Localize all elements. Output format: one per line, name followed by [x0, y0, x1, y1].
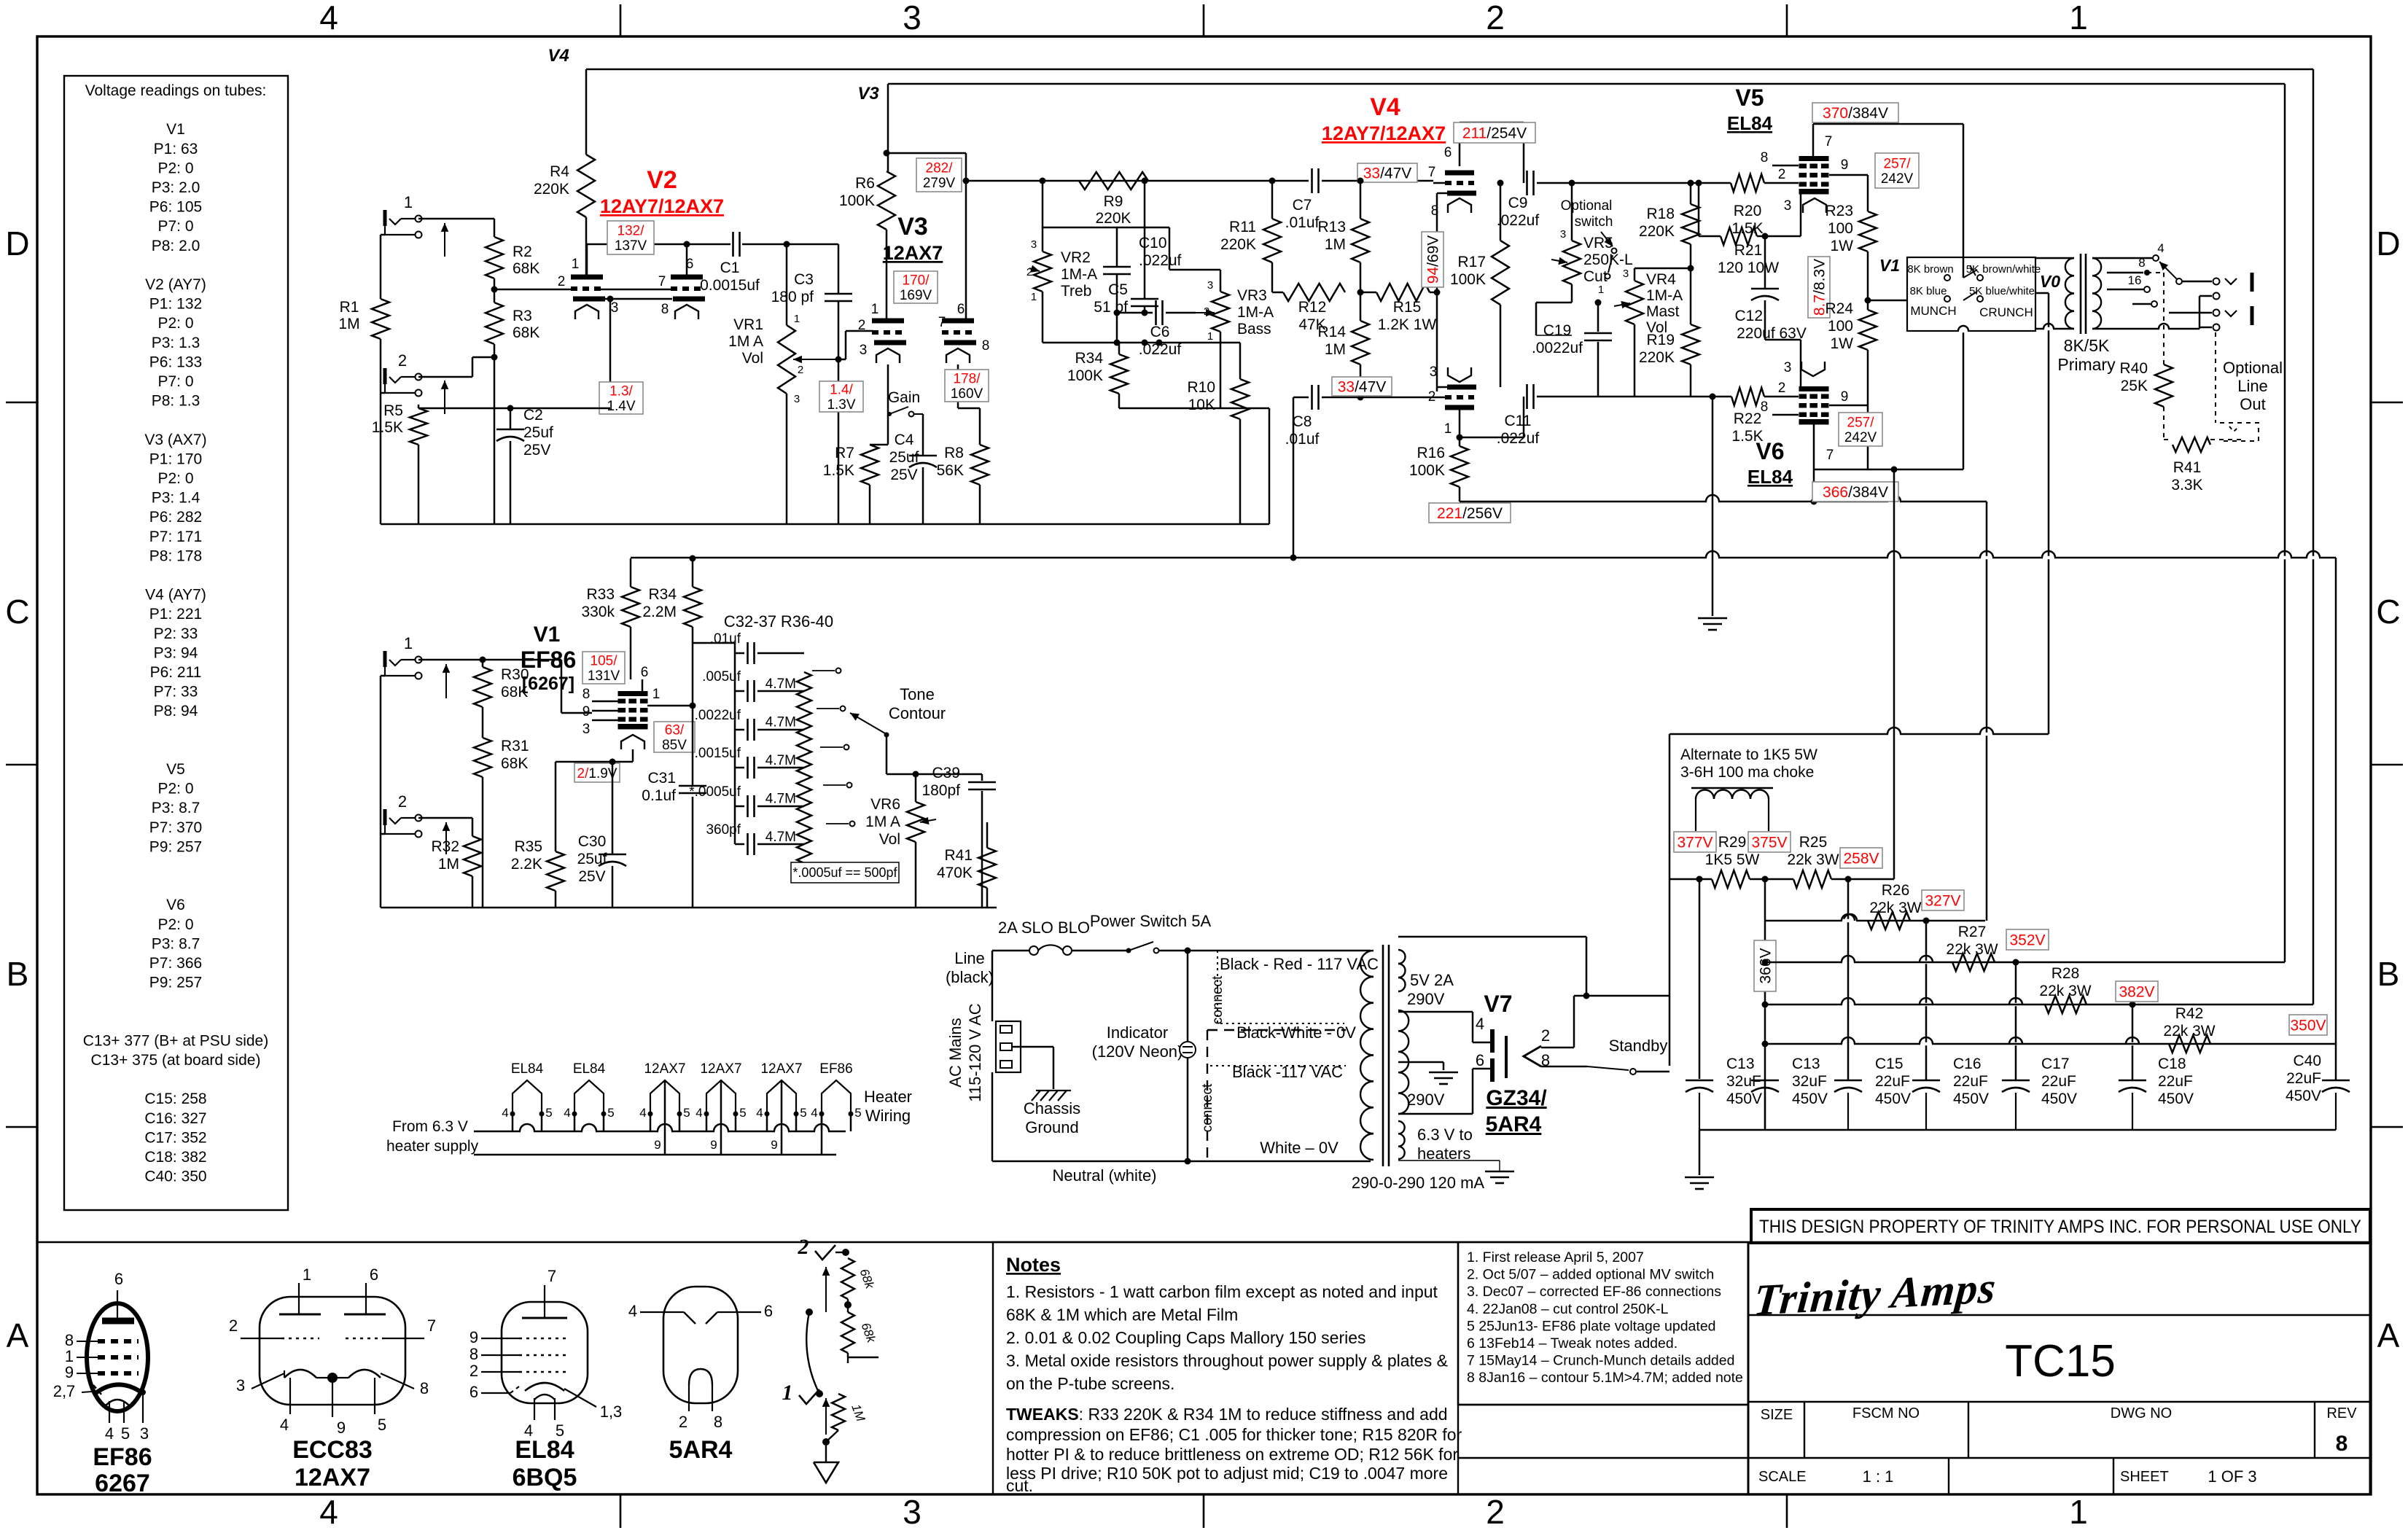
resistor R26: [1868, 912, 1910, 929]
wire B rail preamp: [631, 557, 2336, 559]
wire V4 lower grid: [1433, 397, 1445, 399]
svg-text:Voltage readings on tubes:: Voltage readings on tubes:: [85, 82, 267, 99]
svg-text:R40: R40: [2119, 360, 2148, 377]
svg-text:R10: R10: [1187, 379, 1215, 396]
svg-text:100: 100: [1828, 220, 1853, 237]
wire jack sleeves to ground bus: [380, 235, 382, 299]
svg-text:1.4/: 1.4/: [830, 383, 853, 398]
svg-text:*.0005uf: *.0005uf: [689, 784, 741, 800]
voltage box 375V: [1748, 832, 1791, 852]
wire V4 lower cathode: [1437, 386, 1447, 389]
tube V2 triode B: [671, 275, 703, 280]
munch switch contacts row2: [1944, 296, 1950, 302]
svg-text:R15: R15: [1393, 299, 1422, 316]
resistor R17: [1500, 183, 1502, 241]
svg-text:68K: 68K: [513, 324, 539, 341]
svg-text:22uF: 22uF: [1875, 1073, 1910, 1090]
svg-text:connect: connect: [1210, 975, 1226, 1024]
svg-text:P6: 282: P6: 282: [149, 509, 202, 526]
svg-text:P3: 94: P3: 94: [154, 644, 198, 661]
svg-text:1W: 1W: [1831, 238, 1854, 254]
resistor R11: [1271, 181, 1274, 219]
tube V2 triode A: [571, 275, 603, 280]
svg-text:105/: 105/: [591, 654, 618, 669]
svg-text:25V: 25V: [523, 442, 550, 459]
svg-text:1: 1: [1598, 284, 1604, 296]
svg-text:2.2M: 2.2M: [642, 604, 677, 620]
svg-text:5: 5: [607, 1106, 614, 1120]
capacitor C16: [1912, 1080, 1940, 1082]
svg-text:SCALE: SCALE: [1758, 1469, 1807, 1485]
svg-text:MUNCH: MUNCH: [1910, 304, 1956, 318]
voltage box 350V: [2289, 1015, 2327, 1035]
voltage box 257/242V lower: [1839, 413, 1882, 446]
voltage box 132/137V: [607, 221, 654, 254]
svg-text:282/: 282/: [926, 161, 954, 176]
svg-text:180pf: 180pf: [921, 782, 960, 799]
voltage box 8.7/8.3V rotated: [1808, 257, 1830, 318]
V1 cathode hat: [621, 735, 644, 749]
svg-text:R31: R31: [501, 738, 529, 754]
V5 cathode hat: [1803, 198, 1826, 213]
svg-text:V2: V2: [647, 166, 677, 194]
voltage box 370/384V: [1812, 103, 1898, 122]
capacitor C31: [692, 706, 694, 786]
voltage box 327V: [1922, 890, 1964, 910]
svg-text:1 : 1: 1 : 1: [1863, 1467, 1894, 1486]
resistor R12: [1283, 284, 1345, 301]
svg-text:2: 2: [798, 1235, 809, 1259]
wire R6 to V3 plate A: [886, 230, 888, 321]
dotted wire black-red: [1217, 950, 1346, 951]
svg-text:3: 3: [794, 393, 800, 405]
svg-text:22uF: 22uF: [1953, 1073, 1988, 1090]
capacitor C36: [735, 805, 744, 808]
svg-text:Optional: Optional: [2223, 359, 2283, 377]
svg-text:GZ34/: GZ34/: [1486, 1086, 1547, 1110]
svg-text:4: 4: [280, 1416, 289, 1434]
svg-text:5: 5: [378, 1416, 386, 1434]
svg-text:22uF: 22uF: [2041, 1073, 2076, 1090]
svg-text:180 pf: 180 pf: [771, 289, 814, 305]
svg-text:R22: R22: [1734, 410, 1762, 427]
output transformer secondary: [2092, 258, 2101, 276]
svg-text:Black - Red - 117 VAC: Black - Red - 117 VAC: [1220, 955, 1379, 973]
svg-text:C17: C17: [2041, 1056, 2070, 1072]
wire R27 rail: [1765, 961, 2285, 964]
V3 cathode hat A: [876, 348, 900, 363]
svg-text:.022uf: .022uf: [1497, 212, 1540, 229]
svg-text:4. 22Jan08 – cut control 250K-: 4. 22Jan08 – cut control 250K-L: [1467, 1301, 1669, 1317]
pinout EF86 envelope: [87, 1303, 148, 1411]
heater symbol 12AX7 at x=912: [650, 1080, 679, 1114]
svg-text:8: 8: [714, 1413, 722, 1431]
resistor R13: [1360, 181, 1362, 219]
wire jack2 tip: [418, 376, 472, 378]
svg-text:1: 1: [404, 634, 413, 652]
capacitor C7: [1311, 168, 1313, 193]
svg-text:290V: 290V: [1407, 990, 1445, 1008]
svg-text:352V: 352V: [2009, 932, 2045, 949]
voltage box 63/85V: [654, 722, 695, 752]
svg-text:P2: 33: P2: 33: [154, 625, 198, 642]
svg-text:C13: C13: [1726, 1056, 1755, 1072]
svg-text:C2: C2: [523, 407, 543, 424]
svg-text:12AY7/12AX7: 12AY7/12AX7: [600, 195, 724, 217]
svg-text:Gain: Gain: [888, 389, 920, 406]
svg-text:C15: 258: C15: 258: [144, 1091, 206, 1107]
svg-text:P3: 8.7: P3: 8.7: [152, 800, 200, 816]
svg-text:1: 1: [404, 193, 413, 211]
wire V2 cathode down: [609, 299, 612, 408]
svg-text:switch: switch: [1575, 214, 1613, 230]
wire jack2 tip V1: [418, 817, 472, 819]
wire PSU top rail: [1669, 733, 2049, 736]
svg-text:From 6.3 V: From 6.3 V: [392, 1118, 468, 1135]
svg-text:5K brown/white: 5K brown/white: [1966, 263, 2041, 276]
svg-text:115-120 V AC: 115-120 V AC: [966, 1003, 984, 1101]
svg-text:68K & 1M which are Metal Film: 68K & 1M which are Metal Film: [1006, 1306, 1238, 1325]
svg-text:R4: R4: [550, 163, 569, 180]
wire line down to plug: [991, 951, 994, 1021]
resistor R310: [797, 825, 811, 863]
svg-text:32uF: 32uF: [1792, 1073, 1827, 1090]
svg-text:22k 3W: 22k 3W: [2039, 983, 2091, 999]
svg-text:6: 6: [1444, 145, 1452, 160]
svg-text:1: 1: [1444, 421, 1452, 437]
svg-text:366V: 366V: [1758, 948, 1774, 983]
svg-text:3: 3: [1207, 279, 1213, 292]
svg-text:1M: 1M: [1325, 341, 1346, 358]
svg-text:221/256V: 221/256V: [1437, 505, 1503, 522]
PT 6.3V secondary: [1398, 1121, 1405, 1134]
svg-text:SIZE: SIZE: [1761, 1407, 1793, 1423]
output transformer core: [2080, 254, 2082, 334]
pinout EL84 envelope: [502, 1302, 588, 1403]
svg-text:32uF: 32uF: [1726, 1073, 1761, 1090]
svg-text:25uf: 25uf: [523, 424, 553, 441]
voltage box 1.4/1.3V: [819, 381, 863, 412]
svg-text:0.1uf: 0.1uf: [642, 787, 676, 804]
wire R26 rail: [1765, 920, 1985, 922]
R40 dashed bottom: [2163, 407, 2165, 440]
svg-text:3: 3: [611, 300, 619, 316]
svg-text:C4: C4: [895, 432, 914, 448]
svg-text:R34: R34: [648, 586, 677, 603]
pinout ECC83 center dot: [327, 1373, 338, 1383]
svg-text:1.3V: 1.3V: [827, 397, 855, 413]
input jack 2 (V2 channel): [383, 368, 387, 384]
speaker jack 2 sleeve: [2213, 324, 2220, 331]
svg-text:8: 8: [661, 302, 669, 317]
mains plug: [996, 1021, 1021, 1072]
wire R28 rail: [1765, 1004, 2313, 1006]
svg-text:7: 7: [938, 315, 946, 330]
svg-text:R42: R42: [2175, 1005, 2204, 1022]
svg-text:6267: 6267: [95, 1470, 150, 1497]
voltage box 258V: [1840, 848, 1882, 868]
dotted wire black117: [1210, 1065, 1346, 1066]
wire VR1 wiper to V3 grid: [838, 359, 846, 361]
svg-text:R16: R16: [1417, 445, 1445, 461]
svg-text:C6: C6: [1150, 324, 1170, 340]
svg-text:330k: 330k: [581, 604, 615, 620]
svg-text:(black): (black): [946, 968, 994, 986]
voltage box 211/254V: [1454, 122, 1535, 143]
svg-text:12AX7: 12AX7: [883, 242, 943, 264]
svg-text:R33: R33: [586, 586, 615, 603]
svg-text:C40: C40: [2293, 1053, 2321, 1069]
svg-text:257/: 257/: [1884, 157, 1912, 172]
svg-text:4.7M: 4.7M: [765, 792, 796, 807]
wire V3 B+ top: [887, 84, 889, 171]
svg-text:Optional: Optional: [1561, 198, 1613, 214]
svg-text:C40: 350: C40: 350: [144, 1169, 206, 1185]
svg-text:9: 9: [337, 1419, 346, 1437]
resistor R9: [1079, 172, 1148, 190]
svg-text:2: 2: [469, 1362, 478, 1380]
svg-text:1.5K: 1.5K: [1731, 220, 1763, 237]
capacitor C35: [735, 767, 744, 769]
svg-text:C32-37: C32-37: [724, 612, 776, 631]
svg-text:3.3K: 3.3K: [2171, 477, 2202, 494]
svg-text:V4: V4: [1370, 93, 1400, 121]
voltage box 33/47V upper: [1357, 163, 1417, 182]
svg-text:1 OF 3: 1 OF 3: [2208, 1467, 2256, 1486]
svg-text:2A SLO BLO: 2A SLO BLO: [998, 918, 1090, 937]
pinout ECC83 cathodes: [284, 1370, 316, 1378]
svg-text:P3: 2.0: P3: 2.0: [152, 179, 200, 196]
potentiometer VR2 treble: [1034, 251, 1051, 292]
resistor R15: [1376, 284, 1430, 301]
voltage box 352V: [2006, 929, 2049, 950]
wire V1 grid: [561, 660, 563, 713]
pinout ECC83 plates: [279, 1314, 321, 1316]
svg-text:R24: R24: [1825, 300, 1853, 317]
wire 290V top to V7 plate 4: [1398, 1011, 1473, 1013]
voltage box 33/47V lower: [1332, 377, 1392, 396]
svg-text:7: 7: [427, 1316, 436, 1335]
capacitor C6: [1117, 312, 1153, 314]
svg-text:EL84: EL84: [573, 1061, 606, 1077]
munch-crunch switch box: [1907, 257, 2035, 331]
svg-text:132/: 132/: [617, 224, 645, 239]
svg-text:5AR4: 5AR4: [1486, 1112, 1542, 1136]
svg-text:P7: 370: P7: 370: [149, 819, 202, 836]
wire plug ground prong: [1012, 1046, 1053, 1048]
svg-text:Vol: Vol: [742, 350, 763, 367]
svg-text:5: 5: [545, 1106, 552, 1120]
choke symbol: [1691, 787, 1773, 789]
svg-text:P3: 8.7: P3: 8.7: [152, 935, 200, 952]
svg-text:R23: R23: [1825, 203, 1853, 219]
svg-text:C1: C1: [720, 260, 740, 276]
heater EF86 lower leg: [821, 1114, 823, 1155]
svg-text:22uF: 22uF: [2286, 1070, 2321, 1087]
VR3 wiper arrow from C6: [1196, 312, 1215, 313]
wire VR2 bottom rail: [1042, 292, 1044, 343]
svg-text:.022uf: .022uf: [1139, 252, 1182, 269]
svg-text:R3: R3: [513, 308, 532, 324]
svg-text:EL84: EL84: [1747, 466, 1793, 488]
svg-text:3: 3: [582, 722, 591, 737]
svg-text:.005uf: .005uf: [702, 669, 741, 684]
svg-text:450V: 450V: [2286, 1088, 2321, 1104]
svg-text:3: 3: [1784, 360, 1792, 375]
svg-text:3-6H 100 ma choke: 3-6H 100 ma choke: [1680, 764, 1814, 781]
wire ground bus preamp: [381, 523, 1269, 526]
svg-text:2: 2: [398, 351, 407, 370]
pinout ECC83 bottom pins: [289, 1378, 291, 1414]
resistor R10: [1239, 343, 1242, 379]
capacitor C39: [981, 774, 983, 781]
svg-text:EF86: EF86: [93, 1443, 152, 1471]
svg-text:2: 2: [858, 318, 866, 333]
svg-text:1: 1: [782, 1381, 793, 1405]
dotted connect box upper: [1217, 951, 1344, 1023]
svg-text:220K: 220K: [1639, 349, 1675, 366]
svg-text:V7: V7: [1484, 991, 1512, 1017]
svg-text:2/1.9V: 2/1.9V: [577, 766, 617, 781]
wire plateB node to R9 rail: [966, 180, 1309, 182]
resistor R14: [1352, 321, 1369, 364]
svg-text:7: 7: [1825, 134, 1833, 149]
capacitor C1: [732, 232, 734, 257]
svg-text:12AX7: 12AX7: [644, 1061, 685, 1077]
svg-text:.0015uf: .0015uf: [695, 746, 741, 761]
svg-text:7: 7: [658, 274, 666, 289]
svg-text:hotter PI & to reduce brittlen: hotter PI & to reduce brittleness on ext…: [1006, 1445, 1458, 1464]
svg-text:(120V Neon): (120V Neon): [1092, 1042, 1183, 1061]
heater bus lower: [474, 1154, 836, 1156]
svg-text:9: 9: [582, 704, 591, 719]
svg-text:C5: C5: [1108, 281, 1128, 298]
wire V3 plate B riser: [887, 152, 966, 155]
capacitor C9: [1526, 171, 1528, 195]
svg-text:4: 4: [628, 1302, 637, 1320]
svg-text:V6: V6: [1756, 438, 1784, 464]
svg-text:P9: 257: P9: 257: [149, 975, 202, 991]
wire selector to jack tip: [2182, 281, 2212, 283]
main schematic ground: [1698, 617, 1727, 620]
optional switch symbol: [1601, 232, 1613, 246]
svg-text:1.5K: 1.5K: [372, 419, 403, 436]
svg-text:R12: R12: [1298, 299, 1327, 316]
svg-text:R32: R32: [431, 838, 459, 855]
svg-text:Line: Line: [954, 949, 985, 967]
svg-text:370/384V: 370/384V: [1823, 105, 1888, 122]
speaker jack 1: [2213, 278, 2220, 285]
wire V5 plate to munch switch: [1813, 123, 1963, 125]
svg-text:4: 4: [1476, 1015, 1484, 1033]
svg-text:R25: R25: [1799, 834, 1828, 851]
capacitor C13a: [1699, 879, 1701, 1079]
svg-text:22k 3W: 22k 3W: [1869, 900, 1921, 916]
svg-text:V4 (AY7): V4 (AY7): [145, 587, 206, 604]
svg-text:2: 2: [229, 1316, 238, 1335]
wire bus to ground: [1699, 1130, 1701, 1175]
V6 cathode wire: [1800, 340, 1802, 386]
voltage box 2/1.9V: [574, 763, 620, 782]
input jack 2 (V1): [383, 809, 387, 825]
svg-text:85V: 85V: [662, 738, 687, 753]
svg-text:1M A: 1M A: [865, 814, 900, 830]
wire B+ top rail V4: [586, 69, 2313, 71]
V4 upper cathode hat: [1448, 198, 1471, 213]
wire V6 plate loop down: [1986, 502, 1988, 921]
svg-text:2: 2: [398, 792, 407, 811]
svg-text:1: 1: [2069, 1493, 2088, 1531]
svg-text:470K: 470K: [937, 865, 973, 881]
revision box frame: [1458, 1242, 1748, 1405]
svg-text:Notes: Notes: [1006, 1254, 1061, 1276]
svg-text:450V: 450V: [2041, 1091, 2077, 1107]
svg-text:1: 1: [871, 302, 879, 317]
svg-text:.0022uf: .0022uf: [695, 708, 741, 723]
svg-text:450V: 450V: [1953, 1091, 1989, 1107]
svg-text:C9: C9: [1508, 195, 1528, 211]
svg-text:C16: 327: C16: 327: [144, 1110, 206, 1127]
svg-text:1: 1: [2069, 0, 2088, 36]
wire R42 rail: [1765, 1043, 2336, 1045]
tube V6 EL84: [1799, 386, 1829, 391]
svg-text:EF86: EF86: [819, 1061, 852, 1077]
potentiometer VR3 bass: [1212, 292, 1229, 332]
wire V7 plate pins: [1487, 1042, 1492, 1043]
svg-text:8: 8: [2138, 256, 2145, 270]
svg-text:16: 16: [2128, 273, 2142, 287]
wire B+ drop to R4: [585, 69, 588, 155]
pinout EF86 cathode: [95, 1384, 141, 1394]
PSU ground: [1685, 1177, 1714, 1179]
title block scale row: [1948, 1458, 1949, 1494]
capacitor C34: [735, 729, 744, 731]
svg-text:220K: 220K: [1639, 223, 1675, 240]
svg-text:7 15May14 – Crunch-Munch detai: 7 15May14 – Crunch-Munch details added: [1467, 1353, 1734, 1369]
capacitor C37: [735, 843, 744, 846]
svg-text:10K: 10K: [1188, 397, 1215, 413]
svg-text:P1: 63: P1: 63: [154, 141, 198, 157]
wire V6 grid rail: [1537, 396, 1731, 398]
svg-text:6: 6: [370, 1265, 378, 1284]
svg-text:4: 4: [695, 1106, 702, 1120]
border zone ticks bottom: [620, 1494, 622, 1528]
pinout 5AR4 envelope: [663, 1287, 738, 1403]
grid stopper arrow V1 jack1: [445, 664, 447, 698]
svg-text:2: 2: [798, 364, 803, 376]
capacitor C33: [735, 690, 744, 693]
wire selector common: [886, 735, 888, 774]
voltage box 105/131V: [582, 652, 625, 684]
svg-text:C12: C12: [1734, 308, 1763, 324]
svg-text:3: 3: [1031, 238, 1037, 251]
svg-text:P2: 0: P2: 0: [157, 916, 193, 933]
wire V1 cathode rail: [556, 761, 633, 763]
svg-text:6BQ5: 6BQ5: [513, 1464, 577, 1491]
svg-text:B: B: [2377, 955, 2400, 993]
voltage box 221/256V: [1429, 503, 1511, 523]
svg-text:8: 8: [582, 687, 591, 702]
svg-text:REV: REV: [2326, 1405, 2357, 1421]
PT HT secondary: [1398, 1010, 1408, 1031]
power transformer primary coil: [1360, 951, 1374, 977]
wire C16 feed: [1925, 921, 1928, 1080]
voltage box 282/279V: [916, 158, 962, 192]
wire 5V loop to rectifier filament: [1398, 936, 1586, 938]
capacitor C3: [838, 244, 840, 294]
resistor R1: [372, 299, 389, 339]
svg-text:compression on EF86; C1 .005 f: compression on EF86; C1 .005 for thicker…: [1006, 1425, 1462, 1444]
